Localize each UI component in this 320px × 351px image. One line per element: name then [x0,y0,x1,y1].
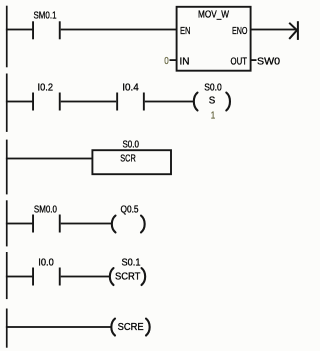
wire contact I0.4 to coil S0.0 [145,101,194,103]
box SCR [92,150,171,174]
svg-text:S0.0: S0.0 [204,81,222,93]
svg-text:ENO: ENO [232,25,248,37]
contact I0.4 [116,81,145,110]
svg-text:S: S [209,95,216,107]
coil Q0.5 [112,203,145,232]
svg-text:S0.1: S0.1 [122,256,141,268]
svg-text:IN: IN [180,55,190,67]
wire contact I0.2 to contact I0.4 [61,101,116,103]
contact SM0.1 [32,9,61,39]
contact SM0.0 [32,203,61,232]
wire OUT output tick [251,59,257,61]
continuation arrow [289,21,299,40]
svg-text:SM0.0: SM0.0 [34,203,57,215]
svg-text:SM0.1: SM0.1 [34,9,57,21]
power rail segment network 5 [6,252,8,299]
wire rail to SCR box [6,158,92,160]
svg-text:SW0: SW0 [257,55,280,67]
svg-text:SCRE: SCRE [118,321,144,333]
svg-text:I0.0: I0.0 [38,256,54,268]
contact I0.2 [32,81,61,110]
svg-text:I0.4: I0.4 [122,81,139,93]
svg-text:0: 0 [164,55,169,67]
coil SCRE [111,319,149,336]
wire contact SM0.1 to MOV_W EN [61,29,177,31]
wire IN input tick [170,59,177,61]
svg-text:1: 1 [211,110,216,122]
svg-text:SCR: SCR [120,152,136,164]
wire rail to contact SM0.0 [6,223,33,225]
svg-text:Q0.5: Q0.5 [121,203,139,215]
svg-text:SCRT: SCRT [115,270,141,282]
box MOV_W U1 [177,7,251,71]
power rail segment network 6 [6,309,8,348]
wire rail to coil SCRE [6,326,111,328]
coil SCRT S0.1 [110,256,145,285]
wire rail to contact I0.0 [6,276,33,278]
contact I0.0 [32,256,61,285]
svg-text:EN: EN [180,25,191,37]
svg-text:S0.0: S0.0 [122,138,139,150]
svg-text:OUT: OUT [231,55,248,67]
wire contact SM0.0 to coil Q0.5 [61,223,112,225]
coil S0.0 set [194,81,230,110]
power rail segment network 3 [6,140,8,195]
power rail segment network 2 [6,74,8,132]
wire ENO to continuation arrow [251,29,298,31]
svg-text:MOV_W: MOV_W [198,9,229,21]
wire contact I0.0 to coil SCRT [61,276,109,278]
svg-text:I0.2: I0.2 [38,81,54,93]
power rail segment network 1 [6,6,8,68]
power rail segment network 4 [6,200,8,246]
wire rail to contact SM0.1 [6,29,33,31]
wire rail to contact I0.2 [6,101,33,103]
